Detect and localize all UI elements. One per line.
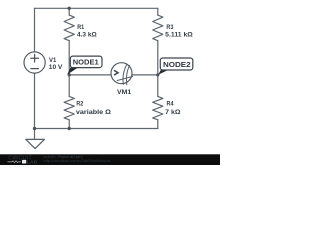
junction node bottom left (ground) xyxy=(33,127,36,130)
wire bottom rail xyxy=(35,128,158,130)
wire R4 top stub xyxy=(157,75,159,97)
junction node bottom of R2 branch xyxy=(68,127,71,130)
node label NODE1 pointer xyxy=(67,67,78,74)
svg-text:5.111 kΩ: 5.111 kΩ xyxy=(165,31,193,38)
svg-text:R2: R2 xyxy=(76,101,83,108)
resistor R1 xyxy=(64,15,74,41)
svg-text:NODE1: NODE1 xyxy=(73,58,100,67)
footer bar xyxy=(0,154,220,165)
svg-text:LAB: LAB xyxy=(27,160,38,165)
wire R2 bottom stub xyxy=(68,120,70,129)
ground symbol xyxy=(26,139,45,148)
wire left branch upper xyxy=(34,8,36,52)
voltmeter VM1 xyxy=(111,63,133,86)
svg-text:NODE2: NODE2 xyxy=(163,60,191,69)
wire bridge left segment xyxy=(69,74,111,76)
resistor R4 xyxy=(153,96,163,119)
wire left branch lower xyxy=(34,73,36,128)
footer logo wire+LAB xyxy=(8,160,38,166)
svg-text:4.3 kΩ: 4.3 kΩ xyxy=(77,31,97,38)
resistor R2 xyxy=(64,96,74,119)
wire bridge right segment xyxy=(132,74,158,76)
svg-text:10 V: 10 V xyxy=(49,64,63,71)
resistor R3 xyxy=(153,15,163,41)
svg-text:http:∕∕circuitlab.com∕c∕2ab93m: http:∕∕circuitlab.com∕c∕2ab93m6abscla xyxy=(43,159,110,163)
svg-text:7 kΩ: 7 kΩ xyxy=(165,109,181,116)
junction node top of R1 branch xyxy=(68,7,71,10)
junction node NODE2 xyxy=(156,73,159,76)
svg-text:R3: R3 xyxy=(166,24,173,31)
svg-text:VM1: VM1 xyxy=(117,89,132,96)
svg-text:R4: R4 xyxy=(167,101,174,108)
svg-text:V1: V1 xyxy=(49,57,56,64)
node label NODE1 box xyxy=(70,56,102,68)
voltage source V1 xyxy=(24,52,45,73)
ground stem xyxy=(34,129,36,140)
wire right branch upper xyxy=(157,8,159,15)
node label NODE2 pointer xyxy=(158,70,168,75)
wire R1 bottom stub to NODE1 xyxy=(68,41,70,75)
wire R2 top stub xyxy=(68,75,70,97)
wire R4 bottom stub xyxy=(157,120,159,129)
junction node NODE1 xyxy=(68,73,71,76)
node label NODE2 box xyxy=(160,58,193,70)
wire top rail xyxy=(35,7,158,9)
wire R3 bottom stub to NODE2 xyxy=(157,41,159,75)
svg-text:R1: R1 xyxy=(77,24,84,31)
wire R1 top stub xyxy=(68,8,70,15)
svg-text:variable Ω: variable Ω xyxy=(76,109,112,116)
